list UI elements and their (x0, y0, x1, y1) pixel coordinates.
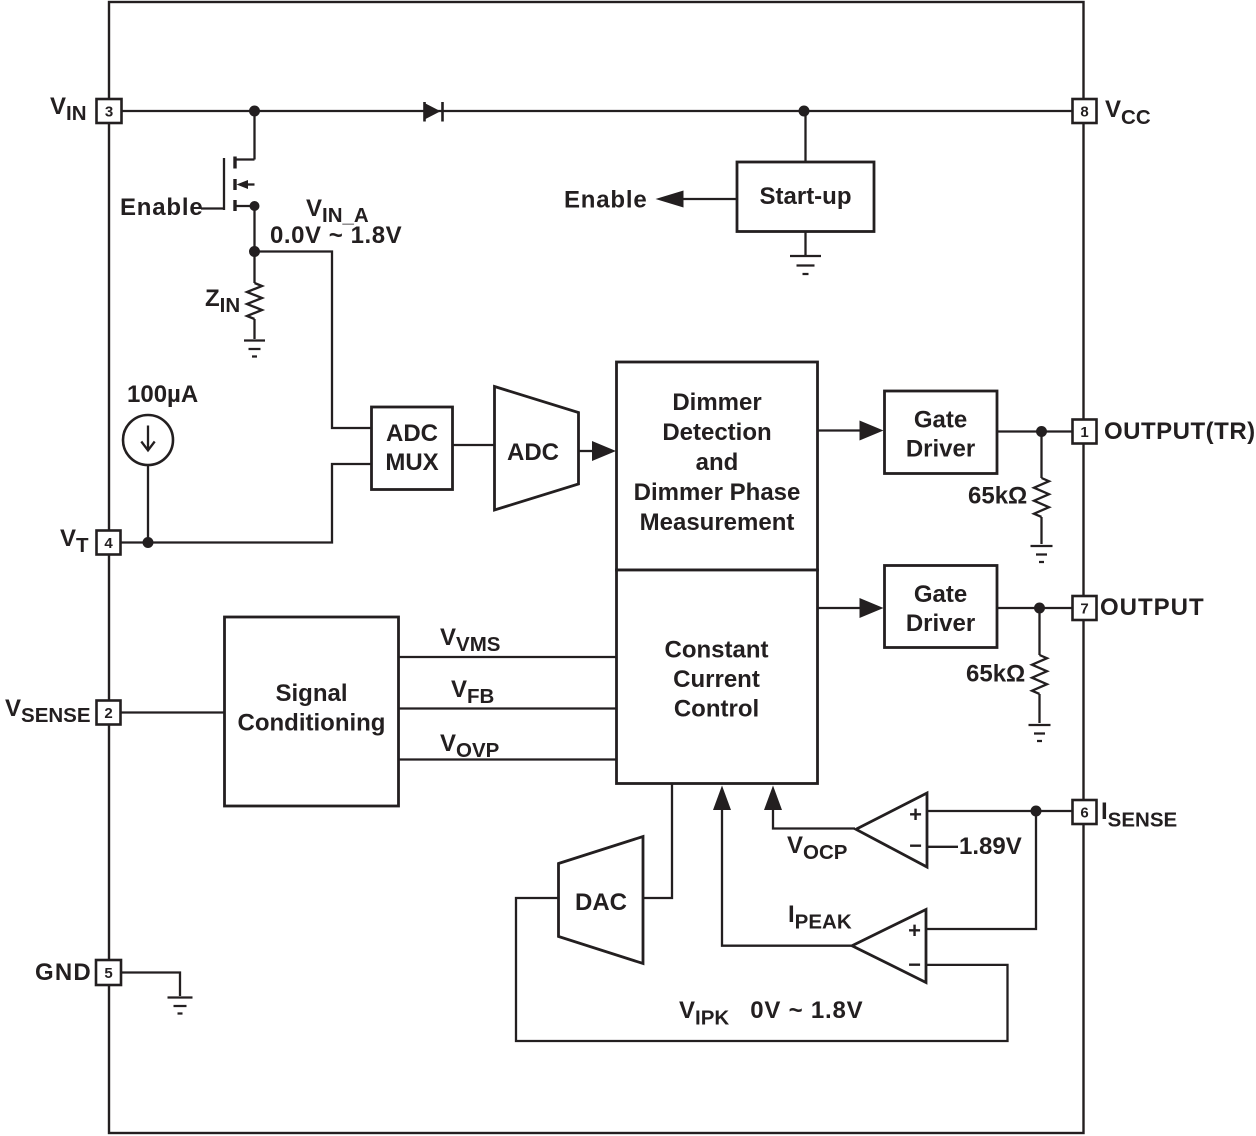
svg-text:100µA: 100µA (127, 381, 198, 408)
comparator U2 VOCP (856, 793, 927, 867)
ground under R2 (1029, 725, 1051, 741)
wire: VOCP - input to 1.89V (927, 846, 958, 848)
svg-text:1: 1 (1080, 424, 1088, 441)
pin 4 VT (97, 531, 121, 555)
Start-up block (737, 162, 874, 232)
svg-text:Gate: Gate (914, 581, 967, 608)
svg-text:Dimmer Phase: Dimmer Phase (634, 479, 801, 506)
svg-text:Driver: Driver (906, 610, 975, 637)
diode D1 on VIN rail (425, 102, 443, 122)
svg-text:ZIN: ZIN (205, 285, 240, 317)
svg-text:Enable: Enable (120, 194, 204, 221)
wire: VIN_A to ADC MUX input 1 (255, 252, 372, 429)
svg-text:and: and (696, 449, 739, 476)
svg-text:GND: GND (35, 959, 92, 986)
svg-text:VOCP: VOCP (787, 832, 847, 864)
resistor ZIN (247, 252, 262, 340)
svg-text:7: 7 (1080, 601, 1088, 618)
pin 7 OUTPUT (1073, 596, 1097, 620)
svg-text:Driver: Driver (906, 436, 975, 463)
node: VIN junction to Q1 drain (249, 106, 260, 117)
node output junction (1034, 603, 1045, 614)
svg-text:VIPK0V ~ 1.8V: VIPK0V ~ 1.8V (679, 997, 863, 1030)
svg-text:VVMS: VVMS (440, 624, 500, 656)
wire VFB (399, 707, 617, 709)
DAC (trapezoid) (559, 837, 644, 964)
wire: ISENSE down to IPEAK + input (926, 811, 1036, 929)
wire: gate driver 1 to pin 1 (997, 430, 1073, 432)
wire: IPEAK comparator output up into CCC with arrow (713, 786, 852, 946)
comparator U3 IPEAK (852, 910, 926, 983)
svg-text:+: + (908, 918, 921, 943)
svg-text:OUTPUT(TR): OUTPUT(TR) (1104, 418, 1256, 445)
wire: pin 2 to signal conditioning (121, 711, 225, 713)
svg-text:Measurement: Measurement (640, 509, 795, 536)
node: VCC junction to Start-up (799, 106, 810, 117)
svg-text:−: − (908, 952, 921, 977)
pin 3 VIN (97, 99, 122, 123)
block: Signal Conditioning (225, 617, 399, 806)
svg-text:VFB: VFB (451, 676, 494, 708)
svg-text:Constant: Constant (665, 637, 769, 664)
svg-text:VIN: VIN (50, 93, 87, 125)
svg-text:0.0V ~ 1.8V: 0.0V ~ 1.8V (270, 222, 402, 249)
block: Dimmer Detection and Dimmer Phase Measurement (617, 362, 818, 570)
wire: VOCP comparator output up into CCC with arrow (764, 786, 855, 829)
svg-text:1.89V: 1.89V (959, 833, 1022, 860)
ground under ZIN (244, 341, 265, 357)
ground under R1 (1031, 546, 1053, 562)
node ISENSE junction (1031, 806, 1042, 817)
svg-text:6: 6 (1080, 805, 1088, 822)
source lead (235, 205, 255, 207)
svg-text:+: + (909, 802, 922, 827)
transistor Q1 (enable pass FET) (201, 111, 260, 252)
svg-text:65kΩ: 65kΩ (968, 483, 1027, 510)
pin 1 OUTPUT(TR) (1073, 420, 1097, 444)
svg-text:2: 2 (104, 705, 112, 722)
wire VVMS (399, 656, 617, 658)
svg-text:ADC: ADC (507, 439, 559, 466)
svg-text:Dimmer: Dimmer (672, 389, 761, 416)
block: Gate Driver (TR) (885, 391, 998, 474)
wire: ADC MUX to ADC (453, 444, 495, 446)
wire: Start-up to ground (804, 232, 806, 256)
gate bar (223, 158, 225, 210)
svg-text:Conditioning: Conditioning (238, 710, 386, 737)
wire: ADC to dimmer block with arrow (579, 441, 617, 461)
svg-text:8: 8 (1080, 104, 1088, 121)
wire: dimmer block to gate driver 1 with arrow (818, 421, 884, 441)
IC boundary box (109, 2, 1084, 1133)
wire: VT to ADC MUX input 2 (121, 464, 372, 543)
wire: VOCP + input to ISENSE (927, 810, 1073, 812)
wire: Start-up enable output arrow (679, 198, 737, 200)
ground under Start-up (790, 256, 821, 274)
svg-text:−: − (909, 833, 922, 858)
wire: gate driver 2 to pin 7 (997, 607, 1073, 609)
svg-text:4: 4 (104, 535, 113, 552)
svg-text:VCC: VCC (1105, 96, 1151, 129)
svg-text:Signal: Signal (275, 680, 347, 707)
block: Constant Current Control (617, 570, 818, 784)
svg-text:VT: VT (60, 525, 89, 557)
svg-text:5: 5 (104, 965, 112, 982)
svg-text:Detection: Detection (662, 419, 771, 446)
node VT junction (143, 537, 154, 548)
wire: current source to VT rail (147, 465, 149, 543)
ADC MUX block (372, 407, 453, 490)
svg-text:Start-up: Start-up (760, 183, 852, 210)
gate lead wire (201, 207, 224, 209)
wire: drain from VIN node (253, 111, 255, 160)
wire: pin 5 to ground (121, 973, 180, 997)
node output(tr) junction (1036, 426, 1047, 437)
pin 5 GND (96, 960, 121, 985)
svg-text:3: 3 (105, 104, 113, 121)
svg-text:VOVP: VOVP (440, 730, 499, 762)
svg-text:MUX: MUX (385, 449, 438, 476)
wire: CCC to gate driver 2 with arrow (818, 598, 884, 618)
svg-text:IPEAK: IPEAK (788, 901, 852, 934)
wire: IPEAK - input feedback loop to DAC (516, 898, 1008, 1041)
wire VOVP (399, 758, 617, 760)
svg-text:DAC: DAC (575, 889, 627, 916)
block: Gate Driver (885, 566, 998, 648)
svg-text:Current: Current (673, 666, 760, 693)
wire: DAC output up into CCC (643, 784, 672, 899)
resistor R2 65k (1032, 608, 1047, 723)
resistor R1 65k (1034, 432, 1049, 545)
svg-text:65kΩ: 65kΩ (966, 661, 1025, 688)
node VIN_A junction (249, 246, 260, 257)
svg-text:Enable: Enable (564, 187, 648, 214)
svg-text:ISENSE: ISENSE (1101, 798, 1177, 832)
svg-text:OUTPUT: OUTPUT (1100, 594, 1205, 621)
pin 6 ISENSE (1073, 800, 1097, 824)
channel bars (233, 157, 236, 169)
svg-text:ADC: ADC (386, 420, 438, 447)
svg-text:Control: Control (674, 696, 759, 723)
pin 2 VSENSE (97, 701, 121, 725)
wire: VIN top rail from pin 3 to pin 8 (121, 110, 1073, 112)
wire: Start-up to VCC rail (804, 111, 806, 162)
body connection with arrow (240, 183, 255, 185)
pin 8 VCC (1073, 99, 1097, 123)
ground at pin 5 (168, 998, 193, 1014)
svg-text:VSENSE: VSENSE (5, 695, 91, 727)
current source I1 100uA (123, 415, 173, 465)
ADC converter (trapezoid) (495, 387, 579, 511)
svg-text:Gate: Gate (914, 407, 967, 434)
